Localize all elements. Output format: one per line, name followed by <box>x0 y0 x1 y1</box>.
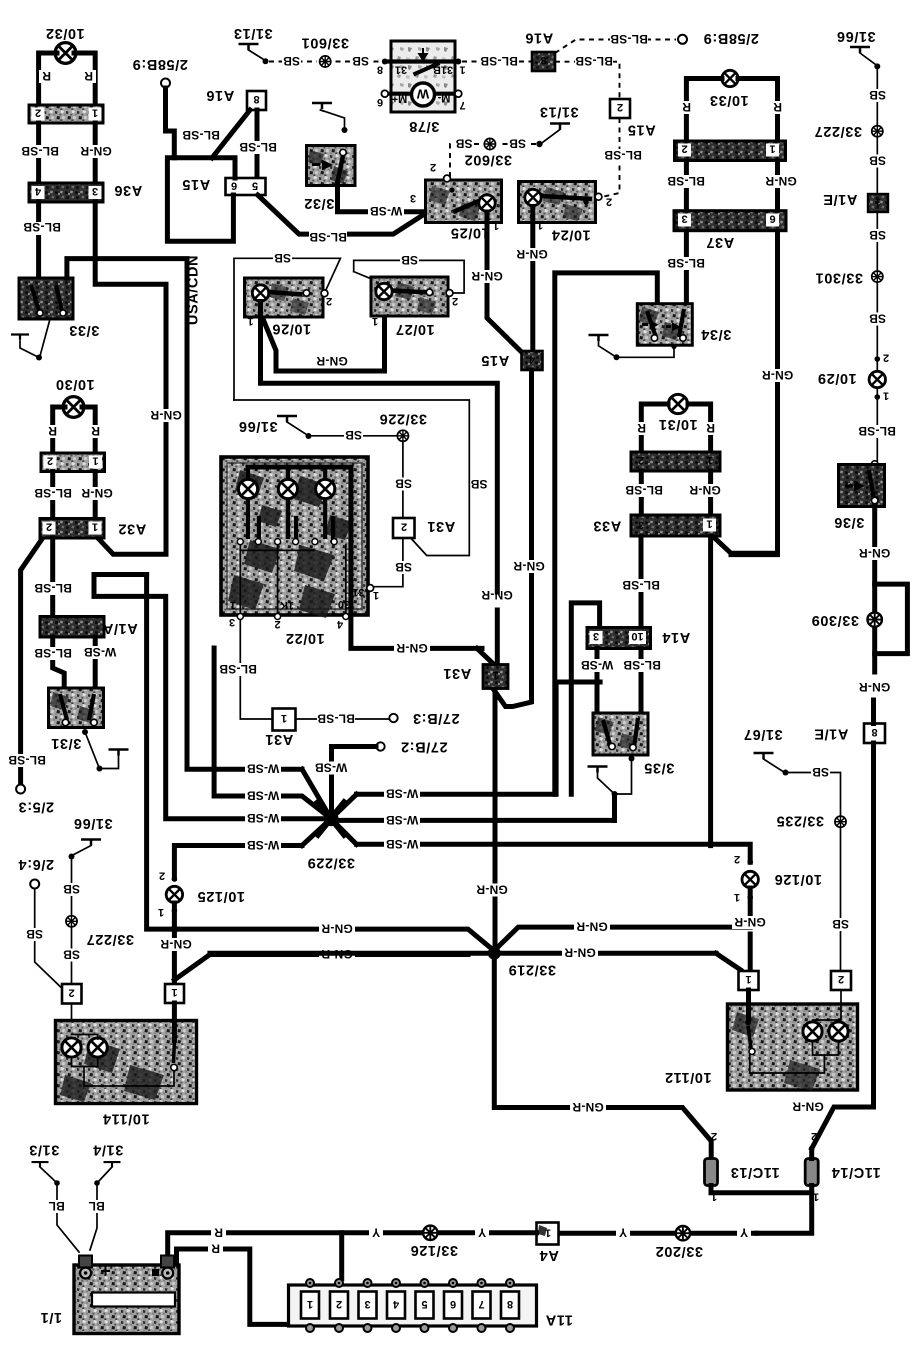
switch 3/34 <box>637 304 731 346</box>
Y wire from A4 left to fuse 2, R wire to battery <box>168 1233 537 1262</box>
svg-text:31/3: 31/3 <box>29 1142 60 1158</box>
svg-text:GN-R: GN-R <box>792 1100 824 1114</box>
svg-text:BL-SB: BL-SB <box>575 54 613 68</box>
W-SB ray left y796 to x180 vertical <box>214 648 331 819</box>
svg-text:1: 1 <box>492 669 498 681</box>
connector bar 10/31 pins 2,1 <box>631 452 720 471</box>
W-SB ray lower-left y845.5 to 10/125 <box>174 846 302 879</box>
svg-text:BL-SB: BL-SB <box>610 32 648 46</box>
svg-text:6: 6 <box>450 1298 456 1310</box>
svg-text:8: 8 <box>377 64 383 76</box>
svg-text:GN-R: GN-R <box>762 368 794 382</box>
thin SB rectangle path to A31:2 <box>234 400 469 556</box>
svg-text:1: 1 <box>373 589 379 601</box>
svg-text:BL-SB: BL-SB <box>858 424 896 438</box>
wire A36 pin4 down to 3/33 <box>36 202 41 278</box>
svg-text:R: R <box>637 421 646 435</box>
svg-text:10/27: 10/27 <box>395 321 434 337</box>
svg-text:3: 3 <box>410 192 416 204</box>
svg-text:W-SB: W-SB <box>386 787 419 801</box>
wire 10/24 lamp down to A15:4 <box>530 207 535 352</box>
svg-text:R: R <box>214 1226 223 1240</box>
wire A15 pin5 to 10/25 pin3 BL-SB <box>258 195 429 234</box>
svg-text:1: 1 <box>230 599 236 611</box>
svg-text:3/33: 3/33 <box>69 322 100 338</box>
svg-text:8: 8 <box>871 726 877 738</box>
svg-text:2/6:4: 2/6:4 <box>18 856 54 872</box>
svg-text:SB: SB <box>869 312 886 326</box>
svg-text:10/126: 10/126 <box>774 871 822 887</box>
connector A31 pin 2 <box>393 518 455 538</box>
svg-text:1: 1 <box>372 315 378 327</box>
splice star 33/229 <box>302 769 357 870</box>
wire 3/33 top-right pin to long run right <box>67 259 187 765</box>
svg-text:2/58B:9: 2/58B:9 <box>703 30 759 46</box>
svg-text:3: 3 <box>681 213 687 225</box>
svg-text:BL-SB: BL-SB <box>667 256 705 270</box>
svg-text:M+: M+ <box>392 93 408 105</box>
svg-text:GN-R: GN-R <box>859 680 891 694</box>
svg-text:GN-R: GN-R <box>80 144 112 158</box>
svg-text:33/126: 33/126 <box>410 1242 458 1258</box>
svg-text:2: 2 <box>734 853 740 865</box>
svg-text:BL-SB: BL-SB <box>625 483 663 497</box>
W-SB ray right y820.4 to 3/35 contact <box>331 798 615 820</box>
lower R wire battery to fuse box <box>177 1249 290 1324</box>
svg-text:2: 2 <box>401 521 407 533</box>
connector A1/A <box>40 617 138 638</box>
svg-text:Y: Y <box>478 1226 486 1240</box>
A33 pin1 diagonal to GN-R vertical <box>714 537 776 553</box>
ground-stub symbols 31/3 and 31/4 <box>29 1142 79 1253</box>
GN-R from 3/36 down with 33/309 loop <box>872 507 877 673</box>
wires bar to A36 <box>39 123 96 183</box>
svg-text:GN-R: GN-R <box>321 922 353 936</box>
svg-text:11C/13: 11C/13 <box>730 1164 780 1180</box>
thin SB from A31:2 down to 10/22 pin 31/1 <box>374 538 403 587</box>
svg-text:BL-SB: BL-SB <box>622 578 660 592</box>
svg-text:2: 2 <box>47 455 53 467</box>
svg-text:33/219: 33/219 <box>508 962 556 978</box>
svg-text:11C/14: 11C/14 <box>831 1164 881 1180</box>
svg-text:33/226: 33/226 <box>379 411 427 427</box>
Y drop from wire into fuse 2 <box>339 1233 344 1279</box>
ground 31/13 (right) <box>536 104 578 148</box>
terminal 2/58B:9 <box>132 56 188 158</box>
svg-text:BL-SB: BL-SB <box>219 662 257 676</box>
svg-text:M-: M- <box>437 92 450 104</box>
lamp 10/31 <box>641 394 710 452</box>
svg-text:27/B:3: 27/B:3 <box>412 710 459 726</box>
svg-text:BL-SB: BL-SB <box>34 646 72 660</box>
svg-text:BL-SB: BL-SB <box>239 140 277 154</box>
svg-text:SB: SB <box>470 477 487 491</box>
svg-text:R: R <box>773 100 782 114</box>
svg-text:31/66: 31/66 <box>238 418 277 434</box>
thin BL-SB to terminal 27/B:3 <box>296 718 389 720</box>
diagonal from 33/219 right ray into pin box <box>716 953 741 970</box>
svg-text:SB: SB <box>63 948 80 962</box>
svg-text:3/36: 3/36 <box>834 514 865 530</box>
x146.6 vertical from y574.5 to GN-R y929 <box>147 575 177 930</box>
switch 10/25 <box>426 161 502 241</box>
svg-text:2/5:3: 2/5:3 <box>18 799 54 815</box>
svg-text:R: R <box>91 424 100 438</box>
svg-text:SB: SB <box>812 765 829 779</box>
connector A15 pin 4 <box>481 351 543 370</box>
n-loop from x555 top over to 3/34 <box>555 273 658 794</box>
dashed from A15:2 down to 10/24 pin 2 <box>602 118 620 197</box>
wire 3/32 to 10/25 pin3 W-SB <box>338 184 430 212</box>
svg-text:2: 2 <box>326 295 332 307</box>
svg-text:7: 7 <box>459 99 465 111</box>
W-SB ray right y845.5 to 10/126 column <box>357 844 751 862</box>
svg-text:10/112: 10/112 <box>664 1069 711 1085</box>
svg-text:A1/A: A1/A <box>102 620 137 636</box>
svg-text:11A: 11A <box>545 1312 573 1328</box>
33/309 loop <box>875 584 908 654</box>
svg-text:2: 2 <box>838 973 844 985</box>
svg-text:A16: A16 <box>525 30 553 46</box>
svg-text:1: 1 <box>883 390 889 402</box>
interior lamp unit 10/114 <box>56 1021 197 1127</box>
svg-text:4: 4 <box>336 618 343 630</box>
connector A16 pin 8 (right, dark) <box>525 30 555 72</box>
switch 10/27 <box>371 277 458 337</box>
dashed BL-SB from 3/78 pin1 to A16 right <box>462 61 531 63</box>
svg-text:SB: SB <box>345 428 362 442</box>
svg-text:5: 5 <box>252 180 258 192</box>
3/33 switch arm and ground <box>11 319 50 361</box>
svg-text:GN-R: GN-R <box>471 269 503 283</box>
svg-text:W-SB: W-SB <box>247 811 280 825</box>
svg-text:1: 1 <box>537 219 543 231</box>
svg-text:A32: A32 <box>118 521 146 537</box>
connector 11C/13 <box>705 1130 812 1203</box>
terminal 27/B:2 with W-SB down to star <box>376 742 384 750</box>
splice 33/601 <box>317 54 334 69</box>
A14 pins down to 3/35 <box>597 649 641 724</box>
svg-text:33/235: 33/235 <box>776 813 824 829</box>
svg-text:3/78: 3/78 <box>409 118 440 134</box>
svg-text:33/227: 33/227 <box>86 931 134 947</box>
connector A1/E pin 8 <box>814 724 885 744</box>
svg-text:GN-R: GN-R <box>160 937 192 951</box>
svg-text:10: 10 <box>631 630 643 642</box>
wire label R (left 10/32) <box>39 69 54 83</box>
svg-text:1: 1 <box>92 107 98 119</box>
svg-text:GN-R: GN-R <box>516 247 548 261</box>
svg-text:10/24: 10/24 <box>551 227 590 243</box>
svg-text:31/13: 31/13 <box>539 104 578 120</box>
switch 3/36 <box>834 461 885 530</box>
GN-R y929 from x146 corner to 33/219 <box>173 929 495 951</box>
svg-text:A14: A14 <box>662 629 690 645</box>
connector bar 10/30 pins 2,1 <box>41 453 105 472</box>
svg-text:BL-SB: BL-SB <box>623 658 661 672</box>
diagonal from y648 wire into A31 pin1 <box>477 648 495 665</box>
svg-text:2: 2 <box>46 521 52 533</box>
fuse box 11A <box>289 1285 573 1328</box>
svg-text:Y: Y <box>619 1226 627 1240</box>
wire A31 pin1 down to 33/219 <box>493 690 498 953</box>
33/219 up-right ray GN-R y927 <box>494 927 750 950</box>
A37 pin6 GN-R down to A33 junction <box>731 232 778 555</box>
svg-text:W-SB: W-SB <box>386 837 419 851</box>
svg-text:33/602: 33/602 <box>464 152 512 168</box>
A14 top-left jog wire <box>571 603 599 794</box>
switch 3/31 <box>49 688 104 751</box>
svg-text:31/66: 31/66 <box>836 28 875 44</box>
pin box 2 above 10/114 <box>62 984 82 1004</box>
svg-text:1: 1 <box>92 521 98 533</box>
svg-text:W-SB: W-SB <box>370 204 403 218</box>
svg-text:GN-R: GN-R <box>150 408 182 422</box>
connector A31 pin 1 (to 27/B:3) <box>265 709 296 748</box>
svg-text:10/114: 10/114 <box>102 1111 149 1127</box>
svg-text:1: 1 <box>707 454 713 466</box>
instrument cluster 10/22 <box>221 457 482 648</box>
svg-text:A31: A31 <box>265 731 293 747</box>
svg-text:A36: A36 <box>114 182 142 198</box>
connector A14 pins 3,10 <box>587 628 690 649</box>
wire label R (right 10/32) <box>81 69 96 83</box>
svg-text:SB: SB <box>63 882 80 896</box>
svg-text:31/4: 31/4 <box>93 1142 124 1158</box>
A37 pin3 down to 3/34 <box>684 232 689 305</box>
dashed SB line with splice 33/601 <box>269 61 380 63</box>
thin SB down from 33/226 to A31:2 <box>402 441 404 518</box>
lamp 10/32 <box>39 25 96 103</box>
terminal 2/58B:9 right <box>678 30 759 46</box>
thin SB wire left segment <box>234 258 340 400</box>
svg-text:1: 1 <box>171 986 177 998</box>
svg-text:33/301: 33/301 <box>815 270 863 286</box>
svg-text:7: 7 <box>478 1298 484 1310</box>
GN-R label on wire exiting 10/22 <box>394 641 430 655</box>
lamp 10/126 <box>734 853 822 903</box>
svg-text:SB: SB <box>869 228 886 242</box>
svg-text:10/31: 10/31 <box>658 416 697 432</box>
svg-text:BL-SB: BL-SB <box>34 486 72 500</box>
switch 3/33 <box>19 278 99 338</box>
svg-text:BL: BL <box>48 1199 64 1213</box>
svg-text:8: 8 <box>507 1298 513 1310</box>
svg-text:4: 4 <box>392 1298 399 1310</box>
lamp 10/30 <box>53 376 95 453</box>
terminal 2/5:3 <box>8 753 54 815</box>
svg-text:10/30: 10/30 <box>55 376 94 392</box>
thin SB to splice 33/226 <box>311 435 403 437</box>
terminal 2/6:4 <box>18 856 62 988</box>
svg-text:31/67: 31/67 <box>743 726 782 742</box>
svg-text:31: 31 <box>352 586 364 598</box>
svg-text:31/66: 31/66 <box>73 815 112 831</box>
svg-text:2: 2 <box>68 987 74 999</box>
svg-text:BL-SB: BL-SB <box>480 54 518 68</box>
svg-text:GN-R: GN-R <box>513 559 545 573</box>
svg-text:1: 1 <box>734 891 740 903</box>
svg-text:2: 2 <box>430 161 436 173</box>
svg-text:3: 3 <box>364 1298 370 1310</box>
thin SB chain down right side <box>876 69 878 463</box>
pin box 1 of 10/125 wire <box>165 984 184 1003</box>
svg-text:SB: SB <box>395 560 412 574</box>
svg-text:10/125: 10/125 <box>197 888 245 904</box>
svg-text:1: 1 <box>769 143 775 155</box>
thin BL-SB from pin3 to 27/B:3 <box>240 620 273 719</box>
connector A1/E pin 1 <box>823 191 888 212</box>
svg-text:10/32: 10/32 <box>45 25 84 41</box>
svg-text:31/13: 31/13 <box>233 25 272 41</box>
svg-text:W-SB: W-SB <box>386 813 419 827</box>
svg-text:1/1: 1/1 <box>40 1309 62 1325</box>
svg-text:2: 2 <box>811 1130 817 1142</box>
svg-text:BL-SB: BL-SB <box>34 581 72 595</box>
svg-text:A31: A31 <box>443 665 471 681</box>
svg-text:SB: SB <box>869 154 886 168</box>
svg-text:SB: SB <box>283 54 300 68</box>
svg-text:Y: Y <box>372 1226 380 1240</box>
3/35 bottom contact to star via thin then thick <box>588 756 635 798</box>
svg-text:R: R <box>48 424 57 438</box>
svg-text:10/22: 10/22 <box>285 630 324 646</box>
svg-text:GN-R: GN-R <box>859 546 891 560</box>
svg-text:GN-R: GN-R <box>689 483 721 497</box>
svg-text:BL-SB: BL-SB <box>604 148 642 162</box>
svg-text:W-SB: W-SB <box>247 789 280 803</box>
svg-text:4: 4 <box>528 353 535 365</box>
svg-text:4: 4 <box>34 185 41 197</box>
switch 10/26 <box>245 278 333 337</box>
wire 10/26 lamp down + branch <box>261 302 498 593</box>
dashed right from A16 down to A15 pin2 <box>555 62 620 99</box>
svg-text:A37: A37 <box>706 234 734 250</box>
thin SB from 31/67 to 33/235 chain <box>789 773 841 972</box>
svg-text:10/33: 10/33 <box>709 92 748 108</box>
connector A33 pins 3,1 <box>593 515 720 536</box>
ground 31/66 (left) <box>69 815 113 860</box>
connector bar 10/32 pins 2,1 <box>29 105 103 123</box>
svg-text:2: 2 <box>452 295 458 307</box>
W-SB ray left y818.7 to x164 vertical <box>94 575 331 819</box>
svg-text:W-SB: W-SB <box>315 761 348 775</box>
svg-text:2: 2 <box>159 870 165 882</box>
svg-text:BL-SB: BL-SB <box>8 753 46 767</box>
svg-text:BL-SB: BL-SB <box>667 174 705 188</box>
3/31 arm to ground <box>82 729 129 772</box>
svg-text:1: 1 <box>459 64 465 76</box>
thin SB chain to 33/227 left and pin box 2 <box>71 860 73 985</box>
svg-text:3/32: 3/32 <box>304 195 335 211</box>
connector A37 pins 3,6 <box>674 211 786 250</box>
svg-text:USA/CDN: USA/CDN <box>186 255 202 325</box>
svg-text:8: 8 <box>253 93 259 105</box>
svg-text:10/26: 10/26 <box>272 321 311 337</box>
svg-text:1: 1 <box>493 220 499 232</box>
A32 pin2 down to A1/A, diagonal to far-left wire <box>50 538 55 617</box>
svg-text:BL-SB: BL-SB <box>23 220 61 234</box>
svg-text:3: 3 <box>593 630 599 642</box>
svg-text:SB: SB <box>352 54 369 68</box>
svg-text:10/29: 10/29 <box>817 370 856 386</box>
svg-text:BL-SB: BL-SB <box>317 712 355 726</box>
svg-text:33/601: 33/601 <box>301 35 349 51</box>
svg-text:SB: SB <box>455 137 472 151</box>
svg-text:Y: Y <box>740 1226 748 1240</box>
A33 pin1 down long to W-SB junction <box>708 536 713 846</box>
Y wire from 11C/14 to A4 and splice 33/202 <box>559 1231 757 1236</box>
svg-text:1: 1 <box>158 906 164 918</box>
svg-text:2: 2 <box>606 196 612 208</box>
svg-text:GN-R: GN-R <box>765 174 797 188</box>
svg-text:3/31: 3/31 <box>51 735 82 751</box>
svg-text:30: 30 <box>338 598 350 610</box>
svg-text:1: 1 <box>247 315 253 327</box>
wire label GN-R on x166 <box>148 408 184 422</box>
ground 31/13 (upper) <box>233 25 272 64</box>
svg-text:R: R <box>211 1242 220 1256</box>
svg-text:3: 3 <box>229 616 235 628</box>
svg-text:A1/E: A1/E <box>823 191 858 207</box>
3/32 actuator line to pivot dot and ground <box>312 103 348 133</box>
svg-text:A33: A33 <box>593 518 621 534</box>
battery 1/1 <box>40 1256 179 1334</box>
wire A15:4 down, jog to A31 pin1 <box>494 370 532 707</box>
svg-text:2/58B:9: 2/58B:9 <box>132 56 188 72</box>
pin box 2 of 10/112 <box>831 971 851 990</box>
svg-text:GN-R: GN-R <box>572 1100 604 1114</box>
10/126 wire down to pin box 1 <box>748 888 753 971</box>
svg-text:3/34: 3/34 <box>701 326 732 342</box>
ground 31/67 <box>743 726 788 776</box>
connector A15 pins 6,5 <box>182 176 266 195</box>
svg-text:BL-SB: BL-SB <box>182 128 220 142</box>
svg-text:8: 8 <box>540 54 546 66</box>
svg-text:2: 2 <box>35 107 41 119</box>
W-SB ray upper-left to x187 <box>187 767 302 772</box>
svg-text:3: 3 <box>92 185 98 197</box>
10/125 down wire, GN-R branch, pin box <box>172 903 177 984</box>
svg-text:2: 2 <box>681 143 687 155</box>
svg-text:2: 2 <box>711 1130 717 1142</box>
svg-text:GN-R: GN-R <box>576 920 608 934</box>
svg-text:A31: A31 <box>427 518 455 534</box>
svg-text:6: 6 <box>769 213 775 225</box>
svg-text:1: 1 <box>307 1298 313 1310</box>
svg-text:5: 5 <box>421 1298 427 1310</box>
svg-text:A16: A16 <box>206 87 234 103</box>
pin box 1 of 10/112 <box>739 971 759 990</box>
svg-text:3/35: 3/35 <box>644 760 675 776</box>
svg-text:33/227: 33/227 <box>814 123 862 139</box>
x497 continue below label to A31:1 <box>495 610 500 667</box>
wire 10/25 lamp down to A15:4 <box>487 212 521 351</box>
W-SB wire from 3/35 contact down to star ray <box>612 797 617 820</box>
fuses 1-8 <box>301 1279 519 1332</box>
svg-text:GN-R: GN-R <box>316 354 348 368</box>
svg-text:31: 31 <box>395 64 407 76</box>
connector A32 <box>40 519 146 539</box>
svg-text:SB: SB <box>869 88 886 102</box>
wire A36 pin3 right-down jog to A32 column <box>95 202 166 554</box>
svg-text:R: R <box>42 69 51 83</box>
svg-text:A1/E: A1/E <box>814 726 849 742</box>
svg-text:27/B:2: 27/B:2 <box>400 739 447 755</box>
dashed up-right to 2/58B:9 right <box>555 40 676 54</box>
svg-text:1: 1 <box>706 518 712 530</box>
svg-text:1: 1 <box>745 973 751 985</box>
